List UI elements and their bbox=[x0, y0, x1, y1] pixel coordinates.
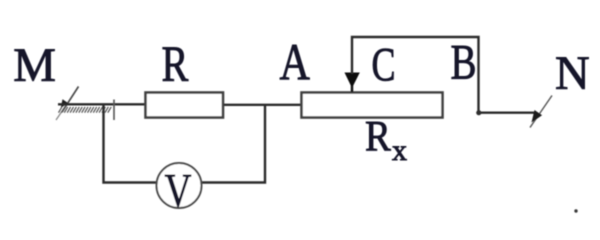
wire: left branch down to voltmeter bbox=[104, 104, 158, 183]
svg-text:R: R bbox=[162, 36, 189, 93]
svg-text:A: A bbox=[280, 34, 310, 91]
wiper arrow of rheostat bbox=[345, 73, 360, 93]
svg-text:N: N bbox=[555, 47, 590, 100]
svg-text:V: V bbox=[165, 165, 192, 216]
hatch scribble on M lead bbox=[59, 107, 112, 113]
resistor R bbox=[146, 93, 224, 118]
wire from wiper over to N side bbox=[352, 37, 535, 113]
voltmeter U1 circle bbox=[157, 163, 202, 208]
svg-text:R: R bbox=[365, 113, 391, 160]
probe arrow at N bbox=[530, 96, 552, 128]
wire R to Rx bbox=[224, 104, 302, 106]
svg-text:x: x bbox=[392, 134, 407, 167]
probe arrow at M bbox=[56, 87, 79, 121]
tick at end of hatched lead bbox=[113, 100, 115, 121]
wire: right branch from voltmeter up to main wire bbox=[202, 104, 265, 183]
wire M to R (with hatched lead) bbox=[58, 103, 146, 105]
junction dot at N-side corner bbox=[476, 110, 481, 115]
rheostat Rx body bbox=[302, 93, 443, 118]
svg-text:B: B bbox=[451, 34, 477, 90]
stray dot bbox=[574, 209, 577, 212]
svg-text:C: C bbox=[372, 39, 396, 92]
svg-text:M: M bbox=[13, 39, 56, 92]
